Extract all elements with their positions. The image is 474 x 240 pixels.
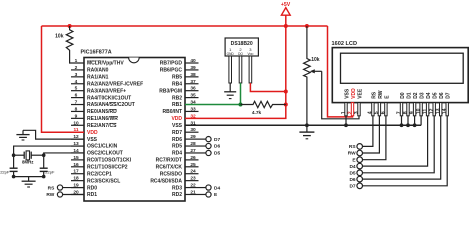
- junction dot crystal left: [12, 153, 16, 157]
- svg-text:16: 16: [73, 162, 79, 168]
- wire: red left branch down to U1 pin 11 VDD: [42, 26, 85, 132]
- svg-text:D6: D6: [349, 177, 355, 183]
- svg-text:1: 1: [341, 111, 347, 114]
- U1 pin 21 stub: [185, 193, 199, 195]
- node D5 terminal (LCD side): [357, 170, 363, 176]
- U1 pin 25 stub: [185, 166, 199, 168]
- node D7 terminal (LCD side): [357, 183, 363, 189]
- svg-text:24: 24: [190, 169, 196, 175]
- svg-text:22: 22: [190, 183, 196, 189]
- ground (pot / bus): [306, 125, 308, 132]
- svg-text:OSC1/CLKIN: OSC1/CLKIN: [87, 144, 118, 150]
- svg-text:RC6/TX/CK: RC6/TX/CK: [156, 165, 183, 171]
- svg-text:RC1/T1OSI/CCP2: RC1/T1OSI/CCP2: [87, 165, 128, 171]
- svg-text:GND: GND: [227, 52, 235, 56]
- junction dot VSS/bus: [344, 123, 348, 127]
- wire: U1 pin 14 OSC2 to crystal: [44, 153, 84, 155]
- svg-text:RD1: RD1: [87, 192, 97, 198]
- svg-text:VSS: VSS: [172, 123, 183, 129]
- svg-text:D7: D7: [349, 184, 355, 190]
- wire: RS terminal to U1 pin 19 RD0: [63, 187, 84, 189]
- wire: capacitor common rail: [14, 176, 44, 178]
- wire: ground bus from U1 pin 31 VSS to LCD D0-D3: [185, 124, 421, 126]
- junction dot rail/R1: [68, 24, 72, 28]
- svg-text:RD7: RD7: [172, 130, 182, 136]
- svg-text:RD5: RD5: [172, 144, 182, 150]
- wire: red vertical feed to DS18B20 / 4.7k / U1 pin 32: [185, 26, 286, 118]
- U1 pin 26 stub: [185, 159, 199, 161]
- svg-text:RC0/T1OSO/T1CKI: RC0/T1OSO/T1CKI: [87, 158, 132, 164]
- svg-text:D4: D4: [349, 164, 355, 170]
- svg-text:9: 9: [409, 111, 415, 114]
- svg-text:RW: RW: [348, 151, 356, 157]
- node D4 terminal (LCD side): [357, 163, 363, 169]
- svg-text:D5: D5: [433, 92, 439, 99]
- svg-text:RC3/SCK/SCL: RC3/SCK/SCL: [87, 178, 120, 184]
- IC U1 PIC16F877A microcontroller body: [84, 58, 185, 202]
- capacitor C2 22pF: [43, 155, 45, 168]
- wire: RS terminal to LCD pin: [363, 116, 373, 147]
- LCD1 pin 9 lead: [413, 103, 415, 116]
- resistor R2 4.7k pull-up: [241, 101, 286, 107]
- U1 pin 30 stub: [185, 131, 199, 133]
- svg-text:VDD: VDD: [171, 116, 182, 122]
- wire: U1 pin 13 OSC1 to crystal: [14, 146, 84, 155]
- svg-text:MCLR/Vpp/THV: MCLR/Vpp/THV: [87, 61, 124, 67]
- svg-text:22pF: 22pF: [0, 169, 10, 174]
- wire: green RB1 to DQ node: [185, 104, 241, 106]
- svg-text:RB1: RB1: [172, 102, 182, 108]
- wire: DS18B20 DQ green down to node: [240, 83, 242, 105]
- wire: D7 terminal to LCD pin: [363, 116, 448, 186]
- wire: D4 terminal to LCD pin: [363, 116, 428, 166]
- wire: RW terminal to LCD pin: [363, 116, 380, 153]
- svg-text:8MHz: 8MHz: [22, 160, 34, 165]
- svg-text:D2: D2: [413, 92, 419, 99]
- U1 pin 17 stub: [71, 173, 84, 175]
- svg-text:25: 25: [190, 162, 196, 168]
- svg-text:37: 37: [190, 79, 196, 85]
- U1 pin 40 stub: [185, 62, 199, 64]
- U1 pin 2 stub: [71, 69, 84, 71]
- U1 pin 15 stub: [71, 159, 84, 161]
- wire: +5V top rail: [42, 25, 328, 27]
- U1 pin 35 stub: [185, 97, 199, 99]
- svg-text:RS: RS: [371, 91, 377, 99]
- U1 pin 8 stub: [71, 110, 84, 112]
- LCD1 pin 10 lead: [420, 103, 422, 116]
- wire: E terminal to LCD pin: [363, 116, 386, 160]
- svg-text:38: 38: [190, 72, 196, 78]
- svg-text:RE0/AN5/RD: RE0/AN5/RD: [87, 109, 117, 115]
- U1 pin 28 stub: [185, 145, 199, 147]
- svg-text:13: 13: [436, 108, 442, 114]
- svg-text:RD2: RD2: [172, 192, 182, 198]
- svg-text:RB3/PGM: RB3/PGM: [159, 88, 182, 94]
- wire: U1 to D5 terminal: [199, 152, 206, 154]
- U1 pin 22 stub: [185, 187, 199, 189]
- svg-text:D5: D5: [349, 171, 355, 177]
- LCD1 pin 7 lead: [400, 103, 402, 116]
- svg-text:18: 18: [73, 176, 79, 182]
- svg-text:RD0: RD0: [87, 185, 97, 191]
- U1 pin 19 stub: [71, 187, 84, 189]
- U1 pin 33 stub: [185, 110, 199, 112]
- resistor R1 10k: [66, 26, 84, 63]
- svg-text:VDD: VDD: [247, 52, 253, 56]
- svg-text:23: 23: [190, 176, 196, 182]
- wire: wiper to LCD VEE pin 3: [322, 71, 359, 119]
- U1 pin 4 stub: [71, 83, 84, 85]
- svg-text:RB5: RB5: [172, 75, 182, 81]
- svg-text:RS: RS: [48, 185, 55, 191]
- U1 pin 10 stub: [71, 124, 84, 126]
- U1 pin 24 stub: [185, 173, 199, 175]
- svg-text:RA3/AN3/VREF+: RA3/AN3/VREF+: [87, 88, 126, 94]
- LCD1 pin 3 lead: [358, 103, 360, 116]
- ground (left, U1 VSS): [22, 130, 24, 134]
- svg-text:8: 8: [403, 111, 409, 114]
- node D5 terminal: [206, 150, 211, 155]
- node E terminal: [206, 192, 211, 197]
- svg-text:VSS: VSS: [87, 137, 98, 143]
- svg-text:40: 40: [190, 58, 196, 64]
- U1 pin 39 stub: [185, 69, 199, 71]
- svg-text:D0: D0: [400, 92, 406, 99]
- svg-text:7: 7: [75, 100, 78, 106]
- svg-text:RE2/AN7/CS: RE2/AN7/CS: [87, 123, 117, 129]
- svg-text:RW: RW: [378, 90, 384, 99]
- potentiometer RV1 10k: [304, 26, 311, 125]
- svg-text:D3: D3: [420, 92, 426, 99]
- svg-text:29: 29: [190, 134, 196, 140]
- svg-text:RB2: RB2: [172, 95, 182, 101]
- U1 pin 27 stub: [185, 152, 199, 154]
- svg-text:27: 27: [190, 148, 196, 154]
- svg-text:RC2/CCP1: RC2/CCP1: [87, 171, 112, 177]
- svg-text:VDD: VDD: [351, 88, 357, 99]
- svg-text:VEE: VEE: [358, 88, 364, 99]
- svg-text:21: 21: [190, 189, 196, 195]
- svg-text:RA2/AN2/VREF-/CVREF: RA2/AN2/VREF-/CVREF: [87, 81, 143, 87]
- U1 pin 7 stub: [71, 104, 84, 106]
- svg-text:22pF: 22pF: [45, 169, 55, 174]
- svg-text:10: 10: [73, 120, 79, 126]
- junction dot bus/pot-ground: [305, 123, 309, 127]
- DS18B20 pin 1 lead: [229, 56, 232, 83]
- svg-text:RW: RW: [46, 192, 54, 198]
- U1 pin 5 stub: [71, 90, 84, 92]
- LCD1 pin 11 lead: [426, 103, 428, 116]
- svg-text:DQ: DQ: [238, 52, 243, 56]
- svg-text:17: 17: [73, 169, 79, 175]
- wire: LCD D1 to ground bus: [407, 116, 409, 125]
- svg-text:VSS: VSS: [345, 88, 351, 99]
- node RW terminal: [57, 192, 62, 197]
- capacitor C1 22pF: [13, 155, 15, 168]
- LCD1 pin 13 lead: [440, 103, 442, 116]
- svg-text:D5: D5: [214, 151, 220, 157]
- svg-text:14: 14: [442, 108, 448, 114]
- U1 pin 18 stub: [71, 180, 84, 182]
- svg-text:39: 39: [190, 65, 196, 71]
- svg-text:11: 11: [422, 109, 428, 115]
- node RS terminal: [57, 185, 62, 190]
- wire: U1 to D6 terminal: [199, 145, 206, 147]
- svg-text:RC4/SDI/SDA: RC4/SDI/SDA: [150, 178, 182, 184]
- svg-text:5: 5: [75, 86, 78, 92]
- svg-text:28: 28: [190, 141, 196, 147]
- U1 pin 36 stub: [185, 90, 199, 92]
- svg-text:4: 4: [368, 111, 374, 114]
- svg-text:PIC16F877A: PIC16F877A: [81, 50, 112, 56]
- svg-text:1602 LCD: 1602 LCD: [332, 41, 358, 47]
- ground (DS18B20): [224, 91, 236, 93]
- svg-text:RA4/T0CKI/C1OUT: RA4/T0CKI/C1OUT: [87, 95, 131, 101]
- svg-text:RD6: RD6: [172, 137, 182, 143]
- wire: red branch to LCD VDD pin 2: [328, 26, 353, 117]
- crystal X1 8MHz: [14, 154, 25, 156]
- node D7 terminal: [206, 137, 211, 142]
- svg-text:RS: RS: [349, 144, 356, 150]
- U1 pin 9 stub: [71, 117, 84, 119]
- LCD1 pin 12 lead: [433, 103, 435, 116]
- U1 pin 16 stub: [71, 166, 84, 168]
- svg-text:RE1/AN6/WR: RE1/AN6/WR: [87, 116, 118, 122]
- svg-text:5: 5: [374, 111, 380, 114]
- svg-text:35: 35: [190, 93, 196, 99]
- sensor U2 DS18B20 body: [225, 38, 258, 56]
- LCD1 pin 8 lead: [407, 103, 409, 116]
- svg-text:D7: D7: [214, 137, 220, 143]
- junction dot feed/DS18B20 VDD: [284, 90, 288, 94]
- node D6 terminal (LCD side): [357, 176, 363, 182]
- svg-text:D6: D6: [439, 92, 445, 99]
- wire: left ground to U1 pin 12 VSS: [23, 130, 84, 139]
- junction dot DQ node (green): [239, 103, 243, 107]
- svg-text:10k: 10k: [55, 34, 64, 40]
- svg-text:RB6/PGC: RB6/PGC: [160, 68, 183, 74]
- U1 pin 6 stub: [71, 97, 84, 99]
- svg-text:8: 8: [75, 106, 78, 112]
- U1 pin 23 stub: [185, 180, 199, 182]
- ground (crystal): [28, 177, 30, 181]
- svg-text:12: 12: [429, 108, 435, 114]
- wire: D5 terminal to LCD pin: [363, 116, 435, 173]
- node D6 terminal: [206, 143, 211, 148]
- wire: RW terminal to U1 pin 20 RD1: [63, 193, 84, 195]
- svg-text:OSC2/CLKOUT: OSC2/CLKOUT: [87, 151, 123, 157]
- svg-text:33: 33: [190, 106, 196, 112]
- junction dot rail/+5V feed: [284, 24, 288, 28]
- wire: U1 to D4 terminal: [199, 187, 206, 189]
- wire: D6 terminal to LCD pin: [363, 116, 441, 179]
- svg-text:7: 7: [396, 111, 402, 114]
- junction dot crystal right: [42, 153, 46, 157]
- wire: LCD D3 to ground bus end: [420, 116, 422, 125]
- wire: U1 to D7 terminal: [199, 138, 206, 140]
- U1 pin 13 stub: [71, 145, 84, 147]
- RV1 wiper arrow: [314, 70, 322, 72]
- svg-text:36: 36: [190, 86, 196, 92]
- svg-text:D6: D6: [214, 144, 220, 150]
- wire: DS18B20 VDD red to +5V feed: [250, 83, 285, 92]
- DS18B20 pin 2 lead: [239, 56, 242, 83]
- junction dot feed/4.7k: [284, 103, 288, 107]
- junction dot rail/pot: [305, 24, 309, 28]
- svg-text:10k: 10k: [311, 57, 320, 63]
- svg-text:RD3: RD3: [172, 185, 182, 191]
- LCD1 pin 2 lead: [351, 103, 353, 116]
- wire: LCD D2 to ground bus: [414, 116, 416, 125]
- DS18B20 pin 3 lead: [249, 56, 252, 83]
- svg-text:3: 3: [354, 111, 360, 114]
- svg-text:D4: D4: [214, 185, 220, 191]
- U1 pin 20 stub: [71, 193, 84, 195]
- svg-text:D1: D1: [407, 92, 413, 99]
- svg-text:26: 26: [190, 155, 196, 161]
- svg-text:4: 4: [75, 79, 78, 85]
- U1 pin 12 stub: [71, 138, 84, 140]
- svg-text:6: 6: [381, 111, 387, 114]
- svg-text:15: 15: [73, 155, 79, 161]
- svg-text:RC7/RX/DT: RC7/RX/DT: [156, 158, 182, 164]
- LCD1 pin 6 lead: [385, 103, 387, 116]
- svg-text:D7: D7: [446, 92, 452, 99]
- svg-text:3: 3: [75, 72, 78, 78]
- U1 pin 3 stub: [71, 76, 84, 78]
- svg-text:RA5/AN4/SS/C2OUT: RA5/AN4/SS/C2OUT: [87, 102, 135, 108]
- svg-text:RA1/AN1: RA1/AN1: [87, 75, 109, 81]
- LCD1 pin 5 lead: [378, 103, 380, 116]
- svg-text:10: 10: [416, 108, 422, 114]
- U1 pin 37 stub: [185, 83, 199, 85]
- LCD1 pin 1 lead: [345, 103, 347, 116]
- U1 pin 14 stub: [71, 152, 84, 154]
- svg-text:RC5/SDO: RC5/SDO: [160, 171, 182, 177]
- svg-text:6: 6: [75, 93, 78, 99]
- svg-text:RA0/AN0: RA0/AN0: [87, 68, 109, 74]
- wire: DS18B20 GND pin to ground: [229, 83, 231, 92]
- wire: U1 to E terminal: [199, 193, 206, 195]
- node RS terminal (LCD side): [357, 144, 363, 150]
- svg-text:2: 2: [75, 65, 78, 71]
- wire: LCD D0 to ground bus: [401, 116, 403, 125]
- LCD1 pin 14 lead: [446, 103, 448, 116]
- wire: LCD VSS pin1 to ground bus: [345, 116, 347, 125]
- svg-text:30: 30: [190, 127, 196, 133]
- LCD1 pin 4 lead: [372, 103, 374, 116]
- svg-text:VDD: VDD: [87, 130, 98, 136]
- U1 pin 38 stub: [185, 76, 199, 78]
- U1 pin 29 stub: [185, 138, 199, 140]
- svg-text:2: 2: [347, 111, 353, 114]
- node D4 terminal: [206, 185, 211, 190]
- svg-text:4.7k: 4.7k: [252, 110, 262, 116]
- svg-text:9: 9: [75, 113, 78, 119]
- svg-text:D4: D4: [426, 92, 432, 99]
- LCD LCD1 1602 module body: [332, 48, 468, 103]
- svg-text:RD4: RD4: [172, 151, 182, 157]
- svg-text:RB7/PGD: RB7/PGD: [160, 61, 183, 67]
- node RW terminal (LCD side): [357, 150, 363, 156]
- svg-text:RB4: RB4: [172, 81, 182, 87]
- node E terminal (LCD side): [357, 157, 363, 163]
- svg-text:RB0/INT: RB0/INT: [163, 109, 182, 115]
